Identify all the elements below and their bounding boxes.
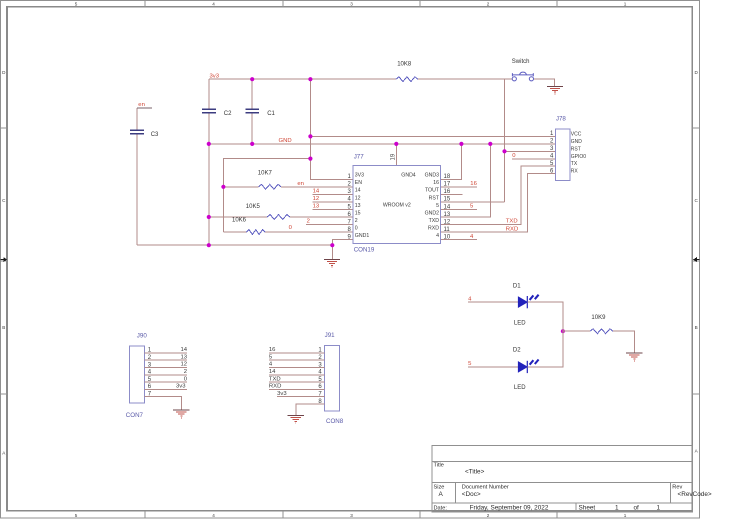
- wire TXD path to J78 pin5: [441, 166, 556, 224]
- wire 3v3 top rail: [209, 78, 512, 80]
- wire J91 pin7: [277, 396, 324, 398]
- svg-text:4: 4: [212, 513, 215, 518]
- ground at J90: [173, 409, 190, 411]
- svg-text:C1: C1: [267, 111, 275, 117]
- svg-text:LED: LED: [514, 320, 526, 326]
- svg-text:12: 12: [180, 362, 187, 368]
- svg-text:13: 13: [313, 204, 320, 210]
- wire IC pin14 stub: [441, 209, 478, 211]
- ground at IC pin9: [324, 258, 340, 260]
- svg-text:B: B: [2, 325, 5, 330]
- svg-text:15: 15: [444, 197, 451, 203]
- wire J91 pin3: [269, 367, 325, 369]
- IC J77 pin numbers right: [444, 174, 451, 240]
- wire J90 pin5: [145, 381, 187, 383]
- resistor 10K7: [258, 184, 281, 189]
- svg-text:CON7: CON7: [126, 412, 144, 419]
- wire IC pin16 stub: [441, 193, 463, 195]
- svg-text:10K7: 10K7: [258, 170, 273, 176]
- resistor 10K8: [396, 77, 418, 82]
- junction dots: [207, 77, 565, 333]
- svg-text:16: 16: [470, 181, 477, 187]
- wire GND line to J78 pin2: [209, 143, 556, 145]
- svg-text:C3: C3: [151, 132, 159, 138]
- wire C3 riser and en stub: [136, 108, 138, 245]
- svg-text:CON8: CON8: [326, 418, 344, 425]
- svg-text:3V3: 3V3: [355, 173, 364, 179]
- wire IC pin3 stub: [313, 193, 354, 195]
- wire 10K6 leads: [223, 231, 353, 233]
- IC J77 pin numbers left: [347, 174, 351, 240]
- svg-text:10K5: 10K5: [246, 204, 261, 210]
- svg-text:10K6: 10K6: [232, 218, 247, 224]
- svg-text:5: 5: [436, 203, 439, 209]
- wire IC pin19 GND riser: [395, 144, 397, 166]
- svg-text:D1: D1: [513, 284, 521, 290]
- svg-text:2: 2: [307, 219, 310, 225]
- svg-text:16: 16: [269, 347, 276, 353]
- svg-text:TXD: TXD: [429, 218, 440, 224]
- svg-text:18: 18: [444, 174, 451, 180]
- svg-text:VCC: VCC: [571, 131, 582, 137]
- svg-text:3v3: 3v3: [210, 74, 220, 80]
- ground at J91: [288, 414, 305, 416]
- wire VCC line to J78 pin1: [310, 135, 555, 137]
- wire J91 pin8 to ground: [296, 404, 325, 415]
- svg-text:J90: J90: [137, 333, 148, 340]
- svg-text:GND: GND: [571, 139, 583, 145]
- svg-text:10K8: 10K8: [397, 62, 412, 68]
- svg-text:en: en: [297, 181, 304, 187]
- svg-text:RXD: RXD: [269, 384, 281, 390]
- svg-text:3: 3: [350, 2, 353, 7]
- wire D2 anode: [468, 366, 519, 368]
- border column ticks top: [145, 1, 557, 7]
- svg-text:Title: Title: [434, 463, 444, 469]
- svg-text:10K9: 10K9: [591, 315, 606, 321]
- svg-text:J77: J77: [354, 153, 365, 160]
- border row labels right: [695, 70, 699, 454]
- svg-text:2: 2: [487, 2, 490, 7]
- capacitor C1: [245, 109, 259, 112]
- svg-text:Document Number: Document Number: [462, 484, 509, 490]
- svg-text:19: 19: [390, 153, 396, 160]
- svg-text:Sheet: Sheet: [579, 504, 596, 511]
- svg-text:RXD: RXD: [506, 226, 518, 232]
- wire D2 cathode to junction: [527, 331, 563, 367]
- IC J77 WROOM v2: [353, 166, 440, 244]
- wire J90 pin1: [145, 352, 187, 354]
- wire IC pin9 GND1 hook: [332, 240, 353, 259]
- resistor 10K6: [247, 230, 266, 235]
- svg-text:5: 5: [75, 513, 78, 518]
- svg-text:11: 11: [444, 227, 451, 233]
- svg-text:GND4: GND4: [401, 173, 416, 179]
- wire J91 pin4: [269, 374, 325, 376]
- svg-text:of: of: [634, 504, 640, 511]
- svg-text:Friday, September 09, 2022: Friday, September 09, 2022: [470, 504, 549, 511]
- wire IC pin13 GND2 hook: [441, 144, 491, 217]
- svg-text:RX: RX: [571, 169, 579, 175]
- svg-text:<Title>: <Title>: [465, 468, 485, 475]
- wire 3v3 feed to resistor rail: [223, 159, 310, 233]
- title block cell dividers: [456, 483, 671, 512]
- svg-text:2: 2: [487, 513, 490, 518]
- svg-text:D2: D2: [513, 348, 521, 354]
- wire 10K7 leads (EN pullup): [223, 186, 353, 188]
- svg-text:B: B: [695, 325, 698, 330]
- svg-text:5: 5: [75, 2, 78, 7]
- svg-text:<Doc>: <Doc>: [462, 491, 481, 498]
- title block row lines: [432, 461, 693, 503]
- wire J90 pin4: [145, 374, 187, 376]
- wire C1 riser: [251, 79, 253, 144]
- svg-text:LED: LED: [514, 385, 526, 391]
- resistor 10K9: [590, 329, 613, 334]
- svg-text:17: 17: [444, 182, 451, 188]
- border column labels top: [75, 2, 627, 7]
- svg-text:4: 4: [212, 2, 215, 7]
- svg-text:14: 14: [180, 347, 187, 353]
- wire IC pin17 stub: [441, 186, 478, 188]
- wire IC pin7 stub: [306, 224, 353, 226]
- wire J91 pin5: [269, 381, 325, 383]
- capacitor C3: [130, 130, 144, 133]
- svg-text:15: 15: [355, 210, 361, 216]
- svg-text:GND2: GND2: [425, 210, 440, 216]
- right edge center arrow: [693, 257, 700, 262]
- svg-text:1: 1: [624, 513, 627, 518]
- wire 10K5 leads: [209, 216, 353, 218]
- svg-text:Date:: Date:: [434, 505, 448, 511]
- svg-text:3v3: 3v3: [277, 391, 287, 397]
- wire J91 pin1: [269, 352, 325, 354]
- svg-text:C2: C2: [224, 111, 232, 117]
- svg-text:TX: TX: [571, 161, 578, 167]
- svg-text:TXD: TXD: [506, 219, 518, 225]
- svg-text:4: 4: [436, 233, 439, 239]
- svg-text:J91: J91: [325, 332, 336, 339]
- svg-text:A: A: [439, 491, 444, 498]
- svg-text:3v3: 3v3: [176, 384, 186, 390]
- svg-text:CON19: CON19: [354, 246, 375, 253]
- wire J90 pin6: [145, 388, 187, 390]
- svg-text:1: 1: [657, 504, 661, 511]
- svg-text:TXD: TXD: [269, 376, 281, 382]
- wire 3v3 vertical to IC pin1: [310, 79, 353, 179]
- svg-text:Size: Size: [434, 484, 445, 490]
- svg-text:14: 14: [269, 369, 276, 375]
- wire IC pin5 stub: [313, 209, 354, 211]
- svg-text:12: 12: [444, 219, 451, 225]
- svg-text:16: 16: [433, 180, 439, 186]
- border row labels left: [2, 70, 6, 456]
- wire J90 pin3: [145, 367, 187, 369]
- wire junction to 10K9 and ground: [563, 331, 635, 353]
- border column labels bottom: [75, 513, 627, 518]
- svg-text:14: 14: [355, 188, 361, 194]
- capacitor C2: [202, 109, 216, 112]
- svg-text:GND1: GND1: [355, 233, 370, 239]
- svg-text:WROOM v2: WROOM v2: [383, 203, 411, 209]
- svg-text:12: 12: [355, 195, 361, 201]
- wire J91 pin2: [269, 359, 325, 361]
- svg-text:Rev: Rev: [672, 484, 682, 490]
- wire IC pin4 stub: [313, 201, 354, 203]
- svg-text:GPIO0: GPIO0: [571, 154, 587, 160]
- svg-text:14: 14: [313, 189, 320, 195]
- svg-text:1: 1: [615, 504, 619, 511]
- svg-text:14: 14: [444, 204, 451, 210]
- border row ticks right: [692, 128, 699, 394]
- svg-text:13: 13: [444, 212, 451, 218]
- svg-text:EN: EN: [355, 180, 362, 186]
- svg-text:RXD: RXD: [428, 226, 439, 232]
- svg-text:13: 13: [355, 203, 361, 209]
- wire C2 riser (3v3 to GND rail through C2): [208, 79, 210, 245]
- wire IC pin18 GND3 hook: [441, 144, 462, 179]
- left edge center arrow: [1, 257, 8, 262]
- title block outline: [432, 446, 693, 512]
- svg-text:RST: RST: [429, 195, 440, 201]
- wire J91 pin6: [269, 388, 325, 390]
- svg-text:<RevCode>: <RevCode>: [678, 491, 712, 498]
- wire D1 anode: [468, 301, 519, 303]
- wire J90 pin2: [145, 359, 187, 361]
- wire bottom GND line: [137, 244, 332, 246]
- wire J90 pin7 to ground: [145, 397, 182, 411]
- wire J78 pin3 RST: [505, 150, 556, 152]
- svg-text:3: 3: [350, 513, 353, 518]
- border row ticks left: [1, 128, 8, 394]
- ground at switch: [547, 85, 563, 87]
- svg-text:Switch: Switch: [512, 59, 530, 65]
- wire switch to ground: [534, 79, 555, 87]
- svg-text:0: 0: [355, 226, 358, 232]
- connector J78: [556, 129, 570, 180]
- svg-text:10: 10: [444, 234, 451, 240]
- svg-text:en: en: [138, 102, 145, 108]
- border column ticks bottom: [145, 511, 557, 518]
- wire RXD path to J78 pin6: [441, 174, 556, 232]
- svg-text:12: 12: [313, 196, 320, 202]
- wire IC pin15 RST to switch/J78: [441, 79, 505, 202]
- ground at 10K9: [626, 352, 643, 354]
- svg-text:2: 2: [355, 218, 358, 224]
- svg-text:GND: GND: [279, 138, 292, 144]
- svg-text:J78: J78: [556, 116, 567, 123]
- svg-text:1: 1: [624, 2, 627, 7]
- wire IC pin10 stub: [441, 239, 478, 241]
- connector J90: [130, 346, 145, 403]
- svg-text:TOUT: TOUT: [425, 188, 440, 194]
- svg-text:13: 13: [180, 354, 187, 360]
- svg-text:GND3: GND3: [425, 173, 440, 179]
- connector J91: [324, 346, 339, 411]
- svg-text:16: 16: [444, 189, 451, 195]
- resistor 10K5: [267, 215, 290, 220]
- svg-text:2: 2: [184, 369, 187, 375]
- svg-text:RST: RST: [571, 146, 581, 152]
- wire D1 cathode to junction: [527, 302, 563, 331]
- switch SW pushbutton: [512, 72, 533, 81]
- wire J78 pin4 GPIO0 stub: [512, 158, 556, 160]
